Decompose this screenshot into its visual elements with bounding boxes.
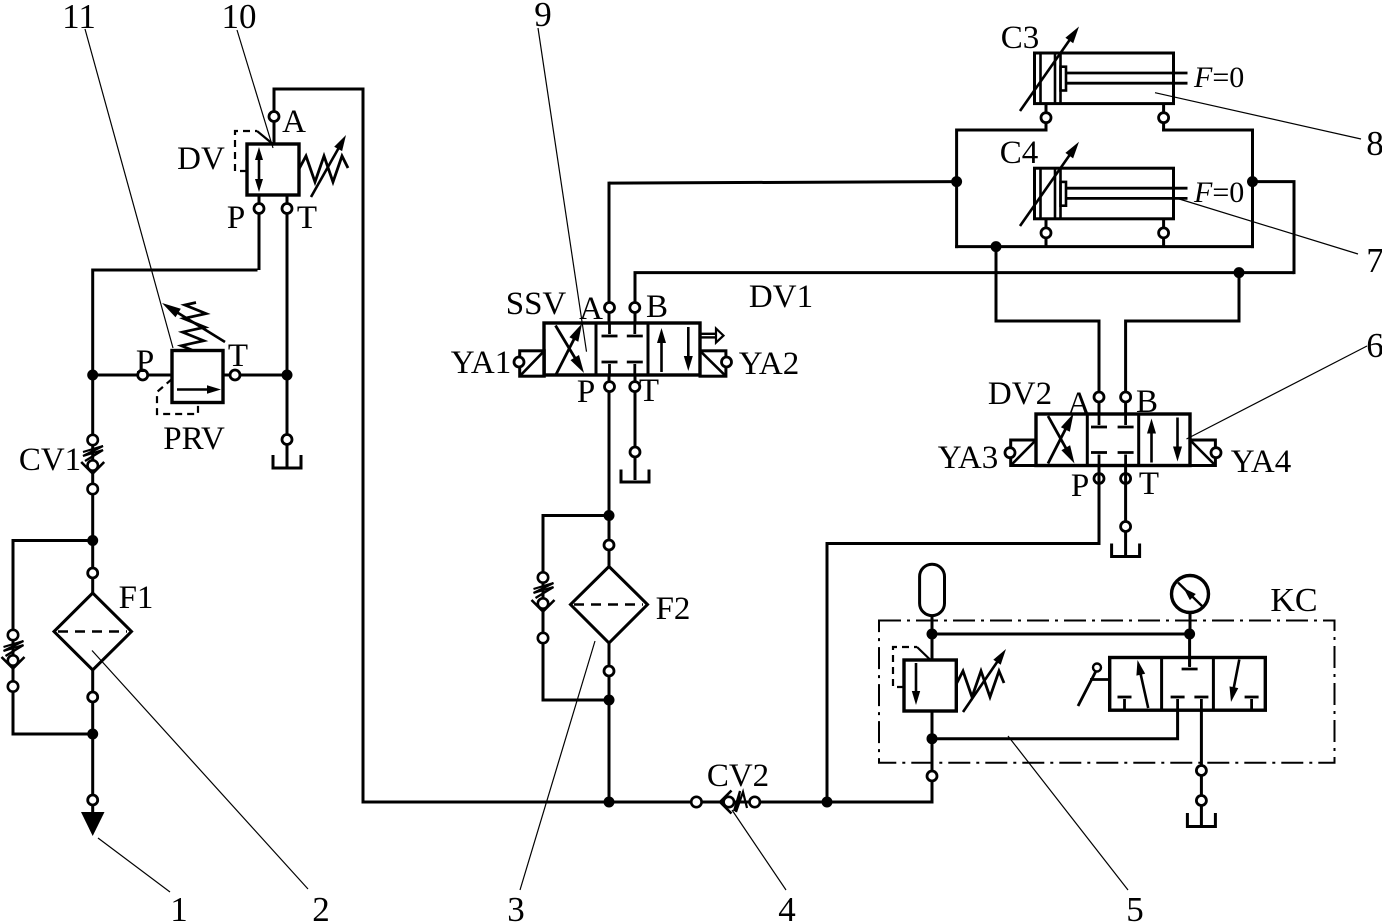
- label F=0 (C3): [1193, 61, 1244, 94]
- pump supply triangle: [81, 812, 105, 836]
- callout leader 8: [1155, 93, 1361, 139]
- label CV2: [707, 758, 769, 794]
- callout label 2: [312, 890, 330, 922]
- label YA1: [451, 345, 512, 381]
- svg-text:2: 2: [312, 890, 330, 922]
- wire SSV port B up and right to DV2 B-line: [634, 182, 1296, 323]
- valve DV2 center cell blocked port P: [1091, 453, 1107, 466]
- svg-text:CV1: CV1: [19, 442, 81, 478]
- tank symbol below DV2: [1112, 544, 1140, 557]
- callout leader 1: [98, 838, 170, 892]
- solenoid YA3 pin circle: [1005, 448, 1015, 458]
- port A circle of SSV: [605, 303, 615, 313]
- wire DV port P down-left to PRV inlet: [93, 195, 259, 377]
- valve SSV center cell blocked port T: [627, 362, 643, 375]
- callout label 7: [1366, 241, 1382, 280]
- callout leader 4: [732, 810, 786, 890]
- cylinder C3 left port wire: [1045, 104, 1048, 132]
- valve MV cell dividers: [1162, 658, 1214, 711]
- solenoid YA2 pin circle: [722, 357, 732, 367]
- callout leader 9: [538, 28, 587, 352]
- node junction loop bottom / DV2 A-line: [991, 241, 1002, 252]
- wire F2 bypass loop: [543, 516, 609, 701]
- callout label 4: [778, 890, 796, 922]
- valve MV center cell bottom blocked port left: [1171, 697, 1185, 710]
- svg-text:A: A: [282, 104, 306, 140]
- callout label 10: [222, 0, 257, 36]
- valve SSV right cell arrow down: [684, 327, 693, 371]
- valve SSV left cell crossed arrow up: [556, 324, 582, 375]
- cylinder C3 body: [1035, 53, 1188, 104]
- valve SSV cell dividers: [596, 323, 648, 375]
- wire MV gauge stub: [1188, 633, 1191, 667]
- wire DV2 port B feed: [1126, 273, 1239, 415]
- svg-text:P: P: [577, 374, 595, 410]
- valve PRV internal arrow: [177, 385, 221, 394]
- svg-text:1: 1: [170, 890, 188, 922]
- valve DV body: [247, 144, 299, 195]
- wire KC-RV outlet to KC bottom line: [931, 710, 934, 741]
- valve DV spring adjustment arrow: [311, 135, 346, 197]
- accumulator: [920, 564, 945, 615]
- port T circle of DV2: [1121, 474, 1131, 484]
- svg-text:6: 6: [1366, 326, 1382, 365]
- circle on DV tank line: [282, 435, 292, 445]
- pressure gauge needle: [1178, 583, 1203, 607]
- port P circle of PRV: [138, 370, 148, 380]
- svg-text:C4: C4: [1000, 135, 1039, 171]
- wire KC-RV outlet down to bottom rail: [931, 737, 934, 804]
- label B (DV2 port): [1136, 384, 1158, 420]
- port P circle of SSV: [605, 382, 615, 392]
- label F1: [119, 580, 154, 616]
- svg-text:T: T: [297, 200, 317, 236]
- port T circle of SSV: [630, 382, 640, 392]
- valve SSV center cell blocked port A: [602, 323, 618, 336]
- relief valve KC-RV pilot dashed line: [893, 647, 930, 687]
- wire right loop vertical: [1251, 129, 1254, 249]
- cylinder C4 right port wire: [1162, 219, 1165, 248]
- check valve CV1 top circle: [88, 435, 98, 445]
- valve MV left cell blocked port: [1118, 697, 1132, 710]
- svg-text:YA3: YA3: [938, 440, 999, 476]
- label T (SSV port): [639, 373, 659, 409]
- label F2: [656, 591, 691, 627]
- svg-text:P: P: [1071, 468, 1089, 504]
- node junction below F1: [87, 729, 98, 740]
- valve PRV spring adjustment arrow: [162, 303, 225, 342]
- valve SSV center cell blocked port B: [627, 323, 643, 336]
- valve SSV right cell arrow up: [657, 328, 666, 372]
- check valve F2-bypass top circle: [538, 572, 548, 582]
- svg-text:YA1: YA1: [451, 345, 512, 381]
- svg-text:SSV: SSV: [506, 286, 567, 322]
- callout leader 5: [1008, 736, 1128, 890]
- node junction left loop / A-rail: [951, 176, 962, 187]
- label T (DV port): [297, 200, 317, 236]
- filter F2 diamond: [571, 567, 648, 644]
- circle on MV tank line lower: [1196, 796, 1206, 806]
- port T circle of DV: [282, 204, 292, 214]
- circle on SSV tank line: [630, 447, 640, 457]
- valve DV2 left cell crossed arrow down: [1048, 416, 1075, 464]
- svg-text:4: 4: [778, 890, 796, 922]
- circle on MV tank line upper: [1196, 766, 1206, 776]
- valve MV left cell arrow: [1136, 660, 1148, 708]
- callout leader 10: [237, 30, 273, 148]
- valve MV body: [1110, 658, 1266, 711]
- port P circle of DV2: [1094, 474, 1104, 484]
- label DV: [177, 141, 225, 177]
- check valve F1-bypass top circle: [8, 630, 18, 640]
- valve MV right cell arrow: [1230, 660, 1240, 703]
- check valve F2-bypass bottom circle: [538, 633, 548, 643]
- check valve CV2 ball and seat: [720, 791, 734, 814]
- wire DV port A to top rail: [273, 89, 364, 145]
- svg-text:5: 5: [1126, 890, 1144, 922]
- svg-text:9: 9: [534, 0, 552, 34]
- svg-text:KC: KC: [1270, 582, 1317, 619]
- svg-text:YA4: YA4: [1231, 444, 1292, 480]
- wire PRV T to tank: [286, 374, 289, 468]
- valve MV center cell bottom blocked port right: [1194, 697, 1208, 710]
- circle on DV2 tank line: [1121, 522, 1131, 532]
- label P (PRV port): [136, 344, 154, 380]
- wire PRV P-T horizontal line: [93, 374, 289, 377]
- node junction KC bottom line: [927, 733, 938, 744]
- label T (PRV port): [228, 338, 248, 374]
- node junction bottom rail / F2 line: [604, 797, 615, 808]
- check valve CV1 bottom circle: [88, 484, 98, 494]
- port B circle of DV2: [1121, 392, 1131, 402]
- node junction P-line / PRV: [87, 370, 98, 381]
- wire C3 right port to right loop: [1162, 129, 1252, 132]
- svg-text:B: B: [646, 289, 668, 325]
- filter F1 diamond: [54, 593, 132, 670]
- check valve CV1 ball and seat: [81, 460, 104, 473]
- circle below F2: [604, 666, 614, 676]
- cylinder C3 variable arrow: [1020, 27, 1079, 112]
- circle on pump suction line: [88, 795, 98, 805]
- node junction accumulator / KC top line: [927, 629, 938, 640]
- wire C3 left port to left loop: [957, 129, 1048, 132]
- cylinder C4 left port circle: [1041, 228, 1051, 238]
- tank symbol below PRV: [273, 455, 301, 468]
- label P (SSV port): [577, 374, 595, 410]
- valve DV2 cell dividers: [1087, 414, 1138, 466]
- relief valve KC-RV internal arrow: [912, 663, 920, 705]
- callout label 11: [62, 0, 96, 36]
- wire right rail vertical (top rail down to bottom rail): [362, 88, 365, 804]
- callout label 1: [170, 890, 188, 922]
- solenoid YA4 box: [1190, 440, 1215, 466]
- label DV1: [749, 279, 813, 315]
- cylinder C4 variable arrow: [1020, 142, 1079, 226]
- wire DV2 port P to bottom rail: [827, 466, 1099, 804]
- check valve F1-bypass bottom circle: [8, 681, 18, 691]
- filter F2 element dashed line: [574, 603, 643, 605]
- label P (DV port): [227, 200, 245, 236]
- circle below F1: [88, 692, 98, 702]
- valve MV lever: [1078, 664, 1110, 707]
- svg-text:DV1: DV1: [749, 279, 813, 315]
- svg-text:P: P: [227, 200, 245, 236]
- valve DV2 center cell blocked port A: [1091, 414, 1107, 427]
- valve DV2 right cell arrow down: [1173, 418, 1182, 462]
- svg-text:F2: F2: [656, 591, 691, 627]
- port A circle of DV: [269, 112, 279, 122]
- svg-text:T: T: [1139, 466, 1159, 502]
- solenoid YA4 pin circle: [1211, 448, 1221, 458]
- valve MV center cell top blocked port: [1182, 658, 1198, 670]
- svg-text:3: 3: [507, 890, 525, 922]
- valve MV right cell blocked port: [1245, 697, 1259, 710]
- wire F1 main vertical: [91, 539, 94, 813]
- valve DV internal arrow: [255, 147, 263, 192]
- solenoid YA3 box: [1011, 440, 1036, 466]
- cylinder C4 right port circle: [1159, 228, 1169, 238]
- label A (SSV port): [579, 291, 603, 327]
- callout label 3: [507, 890, 525, 922]
- callout label 9: [534, 0, 552, 34]
- wire accumulator to junction: [931, 616, 934, 634]
- relief valve KC-RV body: [904, 660, 956, 711]
- filter F1 element dashed line: [58, 630, 127, 632]
- svg-text:F=0: F=0: [1193, 61, 1244, 94]
- svg-text:T: T: [228, 338, 248, 374]
- port P circle of DV: [254, 204, 264, 214]
- solenoid YA1 pin circle: [514, 357, 524, 367]
- label DV2: [988, 376, 1052, 412]
- valve SSV proportional arrow: [701, 329, 724, 343]
- callout leader 2: [92, 651, 308, 890]
- svg-text:A: A: [579, 291, 603, 327]
- svg-text:11: 11: [62, 0, 96, 36]
- valve DV2 center cell blocked port T: [1118, 453, 1134, 466]
- callout leader 3: [520, 641, 595, 890]
- check valve F1-bypass ball and seat: [2, 655, 25, 668]
- label C3: [1001, 20, 1040, 56]
- circle above F2: [604, 540, 614, 550]
- valve PRV spring: [181, 303, 206, 351]
- valve DV pilot dashed line: [235, 131, 274, 171]
- label A (DV port): [282, 104, 306, 140]
- svg-text:8: 8: [1366, 124, 1382, 163]
- cylinder C3 right port wire: [1162, 104, 1165, 132]
- check valve F2-bypass ball and seat: [532, 598, 555, 611]
- wire P-line junction down through CV1 to filter junction: [91, 374, 94, 544]
- svg-text:T: T: [639, 373, 659, 409]
- wire MV tank line: [1200, 710, 1203, 826]
- callout leader 6: [1187, 346, 1368, 439]
- callout label 6: [1366, 326, 1382, 365]
- valve DV2 left cell crossed arrow up: [1048, 414, 1074, 464]
- svg-text:7: 7: [1366, 241, 1382, 280]
- wire DV2 port T to tank: [1124, 466, 1127, 556]
- callout label 5: [1126, 890, 1144, 922]
- label YA3: [938, 440, 999, 476]
- valve SSV body: [544, 323, 700, 375]
- label T (DV2 port): [1139, 466, 1159, 502]
- svg-text:YA2: YA2: [739, 346, 800, 382]
- svg-text:DV: DV: [177, 141, 225, 177]
- check valve CV1 spring: [83, 446, 103, 461]
- wire KC bottom line to MV port: [932, 709, 1178, 739]
- svg-text:F=0: F=0: [1193, 176, 1244, 209]
- wire SSV port T down to tank: [634, 375, 637, 480]
- svg-text:C3: C3: [1001, 20, 1040, 56]
- check valve F2-bypass spring: [534, 583, 554, 598]
- wire F1 bypass loop: [13, 541, 93, 735]
- label P (DV2 port): [1071, 468, 1089, 504]
- check valve CV2 right circle: [750, 797, 760, 807]
- node junction above F2: [604, 510, 615, 521]
- port B circle of SSV: [630, 303, 640, 313]
- check valve F1-bypass spring: [4, 641, 24, 656]
- node junction below F2: [604, 695, 615, 706]
- wire SSV port P down to bottom rail: [608, 375, 611, 804]
- valve PRV body: [172, 351, 223, 403]
- node junction above F1: [87, 535, 98, 546]
- valve PRV pilot dashed line: [157, 379, 198, 414]
- node junction bottom rail / DV2 P line: [822, 797, 833, 808]
- check valve CV2 spring: [734, 791, 747, 812]
- check valve CV2 left circle: [691, 797, 701, 807]
- node junction right loop / B-rail: [1247, 176, 1258, 187]
- svg-text:DV2: DV2: [988, 376, 1052, 412]
- valve DV2 right cell arrow up: [1147, 419, 1156, 463]
- svg-text:PRV: PRV: [163, 421, 225, 457]
- cylinder C4 body: [1035, 168, 1188, 219]
- svg-text:CV2: CV2: [707, 758, 769, 794]
- valve SSV left cell crossed arrow down: [556, 326, 585, 374]
- cylinder C4 left port wire: [1045, 219, 1048, 248]
- label PRV: [163, 421, 225, 457]
- valve DV2 body: [1036, 414, 1190, 466]
- relief valve KC-RV spring: [956, 671, 1004, 697]
- wire DV port T down to tank junction: [286, 195, 289, 377]
- svg-text:F1: F1: [119, 580, 154, 616]
- valve DV spring: [299, 156, 348, 182]
- wire KC top line: [932, 633, 1190, 636]
- circle on KC outlet line: [927, 771, 937, 781]
- port T circle of PRV: [230, 370, 240, 380]
- enclosure KC dash-dot border: [879, 621, 1335, 763]
- node junction T-line / PRV: [282, 370, 293, 381]
- tank symbol below SSV: [621, 470, 649, 483]
- label F=0 (C4): [1193, 176, 1244, 209]
- wire DV2 port A feed: [996, 247, 1099, 415]
- svg-text:A: A: [1067, 386, 1091, 422]
- valve SSV center cell blocked port P: [602, 362, 618, 375]
- pressure gauge body: [1172, 576, 1209, 635]
- svg-text:B: B: [1136, 384, 1158, 420]
- label YA2: [739, 346, 800, 382]
- relief valve KC-RV inlet wire: [931, 633, 934, 662]
- callout label 8: [1366, 124, 1382, 163]
- wire left loop vertical: [955, 129, 958, 249]
- relief valve KC-RV adjustment arrow: [963, 649, 1006, 712]
- cylinder C3 left port circle: [1041, 113, 1051, 123]
- solenoid YA2 box: [700, 351, 726, 376]
- wire bottom rail: [363, 801, 932, 804]
- wire cylinder loop bottom: [955, 245, 1254, 248]
- label B (SSV port): [646, 289, 668, 325]
- circle above F1: [88, 568, 98, 578]
- callout leader 11: [85, 29, 173, 348]
- port A circle of DV2: [1094, 392, 1104, 402]
- svg-text:P: P: [136, 344, 154, 380]
- wire SSV port A up to top rail and right to cylinder loop: [609, 182, 957, 323]
- label CV1: [19, 442, 81, 478]
- node junction B-rail / DV2 B-line: [1234, 267, 1245, 278]
- valve DV2 center cell blocked port B: [1118, 414, 1134, 427]
- callout leader 7: [1176, 198, 1358, 254]
- label SSV: [506, 286, 567, 322]
- cylinder C3 right port circle: [1159, 113, 1169, 123]
- label A (DV2 port): [1067, 386, 1091, 422]
- tank symbol below MV: [1187, 813, 1215, 827]
- solenoid YA1 box: [520, 351, 545, 376]
- label KC: [1270, 582, 1317, 619]
- node junction gauge / KC top line: [1184, 629, 1195, 640]
- label YA4: [1231, 444, 1292, 480]
- svg-text:10: 10: [222, 0, 257, 36]
- label C4: [1000, 135, 1039, 171]
